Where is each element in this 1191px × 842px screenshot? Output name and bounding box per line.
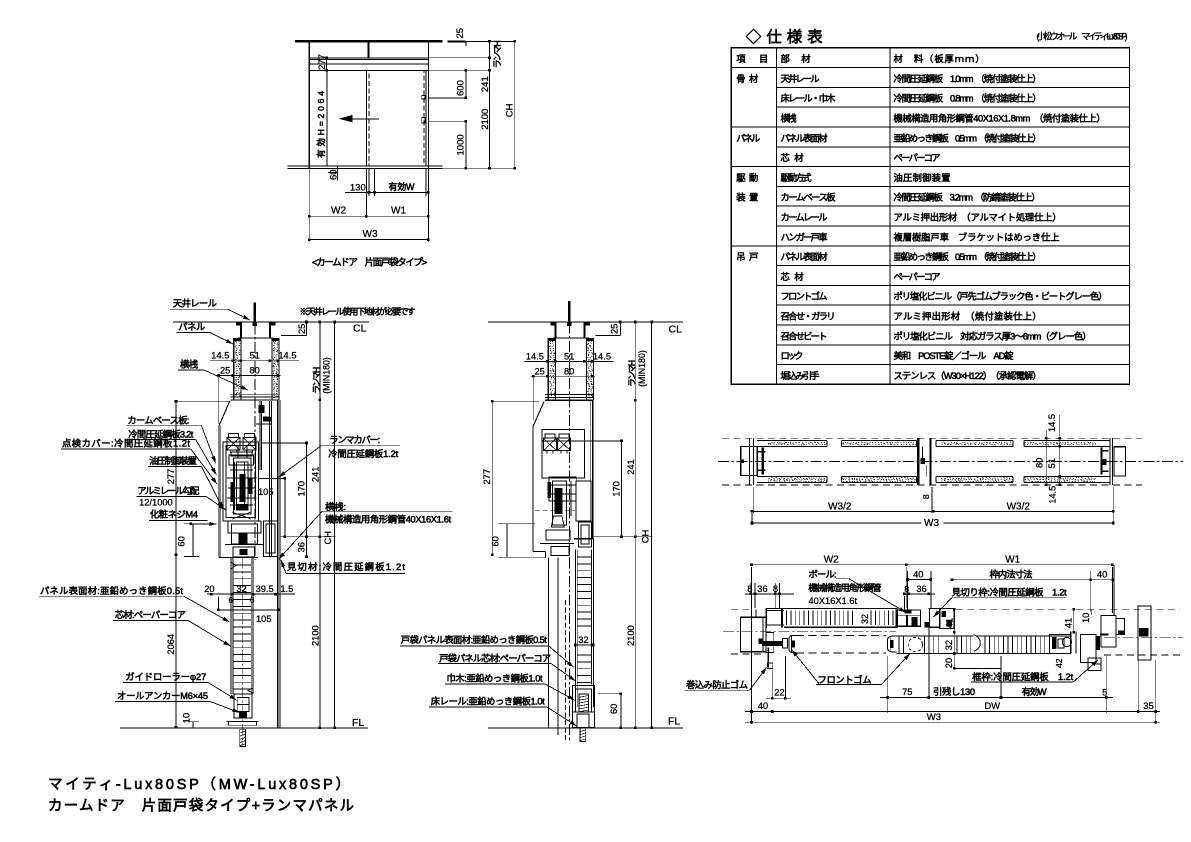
svg-text:点検カバー:冷間圧延鋼板1.2t: 点検カバー:冷間圧延鋼板1.2t	[62, 438, 190, 449]
left section dim row 25/80	[216, 375, 280, 377]
left section: door centerline	[241, 557, 243, 746]
elevation: ceiling line right stub	[448, 40, 466, 42]
left section: door panel skins (paper core ladder)	[230, 557, 232, 694]
mid section dim line CH	[651, 322, 653, 728]
svg-text:パネル表面材: パネル表面材	[781, 132, 828, 143]
hplan1: center meeting stile	[917, 438, 919, 485]
hplan2: dashed wall line lower	[731, 653, 766, 655]
left section: calm rail clamp marks	[259, 405, 265, 413]
svg-text:見切材:冷間圧延鋼板1.2t: 見切材:冷間圧延鋼板1.2t	[287, 561, 405, 572]
svg-text:CH: CH	[323, 531, 333, 544]
elevation right dims: CH line	[514, 41, 516, 168]
svg-text:ボール:: ボール:	[809, 570, 837, 580]
mid section: pocket panel ladder (paper core)	[574, 549, 576, 707]
svg-text:36: 36	[297, 542, 307, 552]
svg-text:堀込み引手: 堀込み引手	[781, 370, 820, 381]
svg-text:ペーパーコア: ペーパーコア	[894, 153, 941, 163]
elevation: left wall vertical	[308, 41, 310, 168]
hplan1: left channel bracket	[762, 448, 764, 475]
hplan1: left wall jamb verticals	[749, 438, 751, 485]
left section dim 25 at CL right	[306, 322, 308, 336]
svg-text:1000: 1000	[456, 134, 467, 155]
svg-text:部 材: 部 材	[781, 53, 811, 64]
svg-text:油圧制御装置: 油圧制御装置	[149, 455, 197, 466]
hplan1: panel skins right half	[936, 440, 1013, 442]
svg-text:600: 600	[456, 80, 467, 96]
svg-text:W3: W3	[363, 229, 378, 240]
left section: ext from 25 dim to cover	[218, 376, 220, 425]
hplan1 dims right: 14.5/51/14.5/80	[1045, 430, 1047, 485]
hplan1: right channel bracket	[1100, 448, 1102, 475]
svg-text:12/1000: 12/1000	[139, 498, 173, 508]
left section dim row 14.5/51/14.5	[210, 360, 299, 362]
left section ext: jamb top to dims	[280, 536, 336, 538]
svg-text:105: 105	[258, 487, 274, 497]
svg-text:8: 8	[773, 584, 778, 594]
svg-text:80: 80	[564, 366, 574, 376]
svg-text:機械構造用角形鋼管40X16X1.6t: 機械構造用角形鋼管40X16X1.6t	[325, 514, 451, 525]
elevation: pocket front edge line	[365, 70, 367, 166]
left section: CL line	[173, 321, 369, 323]
svg-text:ペーパーコア: ペーパーコア	[894, 272, 941, 282]
mid section: cover slope + left edge	[533, 402, 544, 552]
hplan2: pocket band top skin	[766, 607, 897, 609]
left section: inspection cover slope+front	[219, 401, 230, 557]
mid section: mikiri frame at jamb	[574, 538, 593, 540]
left section: ceiling rail channel	[240, 322, 242, 338]
left section dim 170	[306, 443, 308, 537]
left section: guide roller assembly	[234, 694, 252, 718]
svg-text:10: 10	[1081, 613, 1091, 623]
mid section dim row 25/80	[531, 375, 595, 377]
svg-text:CL: CL	[353, 323, 367, 335]
svg-text:2100: 2100	[480, 109, 491, 130]
mid section dim 60 (left)	[506, 524, 508, 557]
elevation: door slide arrow (handle mark)	[352, 118, 379, 120]
hplan2: recessed pull (arc)	[974, 635, 981, 651]
svg-text:241: 241	[310, 467, 320, 483]
mid section: mechanism small parts	[549, 477, 576, 501]
spec table outer border	[731, 48, 1129, 385]
hplan2 dims row 75 / 130 / 有効W / 5	[887, 656, 889, 713]
hplan2 dims: 40 / 8 36 (pole)	[907, 571, 909, 610]
svg-text:75: 75	[902, 687, 912, 697]
mid section dim 170	[621, 441, 623, 537]
svg-text:床レール:亜鉛めっき鋼板1.0t: 床レール:亜鉛めっき鋼板1.0t	[431, 696, 545, 707]
svg-text:カームレール: カームレール	[781, 213, 828, 223]
svg-text:8: 8	[747, 584, 752, 594]
hplan2 dims row 40 DW 35	[751, 615, 753, 724]
hplan2: anti-roll rubber parts	[762, 641, 783, 646]
mid section: hanger rollers	[545, 434, 555, 438]
svg-text:W2: W2	[824, 555, 839, 566]
svg-text:パネル表面材:亜鉛めっき鋼板0.5t: パネル表面材:亜鉛めっき鋼板0.5t	[40, 585, 183, 596]
hplan2: pull plate line	[954, 667, 1001, 669]
svg-text:戸袋パネル芯材:ペーパーコア: 戸袋パネル芯材:ペーパーコア	[439, 653, 551, 664]
svg-text:W1: W1	[1005, 555, 1020, 566]
svg-text:20: 20	[204, 584, 214, 594]
elevation dim 277 (transom rail height)	[326, 58, 328, 71]
svg-text:ランマH: ランマH	[627, 360, 637, 387]
svg-text:FL: FL	[668, 716, 680, 728]
svg-text:横桟:: 横桟:	[325, 501, 346, 512]
left section: centerline	[254, 305, 256, 560]
mid section ext: jamb top to dims	[593, 536, 652, 538]
svg-text:油圧制御装置: 油圧制御装置	[894, 172, 951, 183]
svg-text:14.5: 14.5	[526, 351, 544, 361]
elevation: floor extension to dims	[428, 167, 514, 169]
svg-text:亜鉛めっき鋼板 0.5mm （焼付塗装仕上）: 亜鉛めっき鋼板 0.5mm （焼付塗装仕上）	[894, 251, 1042, 262]
svg-text:冷間圧延鋼板 1.0mm （焼付塗装仕上）: 冷間圧延鋼板 1.0mm （焼付塗装仕上）	[894, 73, 1042, 84]
hplan2: pole (square tube) at pocket mouth	[896, 610, 920, 626]
svg-text:41: 41	[1064, 618, 1074, 628]
mid section dim 277	[491, 401, 493, 555]
svg-text:カームベース板: カームベース板	[781, 192, 836, 203]
svg-text:25: 25	[535, 366, 545, 376]
svg-text:32: 32	[860, 614, 870, 624]
mid section: right edge verticals	[592, 400, 594, 539]
svg-text:召合せビート: 召合せビート	[781, 330, 828, 341]
hplan2: dashed wall line upper	[731, 608, 752, 610]
svg-text:14.5: 14.5	[211, 351, 229, 361]
hplan2: pocket band ladder hatch	[786, 611, 788, 626]
elevation: transom divider mullion	[368, 41, 370, 58]
svg-text:105: 105	[256, 614, 272, 624]
elevation dim 有効W	[375, 191, 429, 193]
svg-text:ランマH: ランマH	[493, 40, 503, 68]
mid section: door slab verticals	[547, 558, 549, 728]
mid section: transom bottom rail	[545, 399, 593, 401]
svg-text:25: 25	[455, 28, 466, 39]
svg-text:32: 32	[944, 640, 954, 650]
svg-text:フロントゴム: フロントゴム	[781, 291, 828, 302]
svg-text:60: 60	[491, 536, 501, 546]
svg-text:8: 8	[921, 494, 931, 499]
svg-text:パネル: パネル	[178, 322, 205, 332]
svg-text:25: 25	[220, 366, 230, 376]
svg-text:ランマカバー:: ランマカバー:	[329, 435, 380, 445]
elevation dim 130 (door projection)	[345, 191, 375, 193]
hplan2 dims: 8 36 8 (left)	[750, 583, 752, 594]
left section: right cover verticals to FL	[277, 400, 279, 728]
svg-text:51: 51	[250, 351, 260, 361]
hplan2: pocket mouth bracket	[765, 608, 767, 628]
spec table row lines	[731, 67, 1129, 69]
svg-text:277: 277	[166, 469, 176, 485]
left section dim line ranmaH/241/2100	[319, 322, 321, 728]
svg-text:アルミレール勾配: アルミレール勾配	[137, 485, 199, 496]
svg-text:引残し130: 引残し130	[933, 686, 975, 697]
hplan2 dim W3	[745, 721, 1160, 723]
left section: transom panel skins	[233, 338, 235, 400]
mid section: door top connector	[551, 547, 569, 556]
svg-text:冷間圧延鋼板 0.8mm （焼付塗装仕上）: 冷間圧延鋼板 0.8mm （焼付塗装仕上）	[894, 93, 1042, 104]
hplan1 dim W3	[752, 522, 1113, 524]
svg-text:天井レール: 天井レール	[781, 73, 820, 84]
elevation: ext lines to right dims	[428, 57, 489, 59]
hplan2: pocket mouth inner bracket	[766, 633, 774, 653]
svg-text:芯 材: 芯 材	[781, 271, 804, 282]
svg-text:25: 25	[297, 324, 307, 334]
hplan2: recessed pull hidden circle (dashed)	[908, 637, 922, 651]
left section dim line CH	[334, 322, 336, 728]
svg-text:ロック: ロック	[781, 351, 804, 361]
mid section: anchor bolt below floor	[580, 728, 586, 741]
hplan2: door slab ladder hatch	[898, 636, 900, 653]
svg-text:有効W: 有効W	[1022, 686, 1047, 697]
svg-text:ポリ塩化ビニル（戸先ゴムブラック色・ビートグレー色）: ポリ塩化ビニル（戸先ゴムブラック色・ビートグレー色）	[894, 291, 1108, 302]
svg-text:130: 130	[350, 182, 366, 193]
svg-text:39.5: 39.5	[256, 584, 274, 594]
left section: jamb/mikiri detail at door top	[264, 521, 278, 557]
elevation: ceiling slab line (thick)	[295, 40, 443, 42]
hplan2: closed door slab skins	[896, 635, 1070, 637]
left section: transom bottom rail	[231, 399, 279, 401]
left section: hydraulic unit internals	[234, 458, 252, 514]
svg-text:14.5: 14.5	[278, 351, 296, 361]
svg-text:277: 277	[482, 469, 492, 485]
svg-text:W3: W3	[927, 712, 941, 723]
left section: hanger rollers	[228, 433, 238, 437]
elevation right dims: 600 and 1000 line	[428, 97, 466, 99]
left section: inner verticals	[259, 401, 261, 470]
left section: extension line transom bottom to far-left dim	[176, 400, 231, 402]
left section: lower hanger bracket	[228, 521, 261, 533]
svg-text:14.5: 14.5	[1047, 414, 1057, 432]
hplan2 dim 枠内法寸法 and 40 (right)	[952, 579, 1091, 581]
svg-text:80: 80	[1035, 458, 1045, 468]
hplan1 dim W3/2 left	[753, 487, 755, 513]
svg-text:ステンレス（W30×H122） （承認電解）: ステンレス（W30×H122） （承認電解）	[894, 370, 1042, 381]
hplan2: left wall cap	[741, 617, 767, 652]
left section: calm base plate	[223, 442, 258, 521]
svg-text:51: 51	[1047, 458, 1057, 468]
left section dim 105 (vertical at mechanism)	[284, 478, 286, 536]
left section dim line 277/2064 (far left)	[175, 401, 177, 727]
mid section dim line ranmaH/241/2100	[634, 322, 636, 728]
hplan2: right wall end block	[1138, 606, 1151, 660]
svg-text:床レール・巾木: 床レール・巾木	[781, 93, 836, 104]
svg-text:241: 241	[480, 76, 491, 92]
svg-text:枠内法寸法: 枠内法寸法	[990, 569, 1033, 580]
hplan2: wall jamb post	[1101, 616, 1116, 648]
svg-text:アルミ押出形材 （アルマイト処理仕上）: アルミ押出形材 （アルマイト処理仕上）	[894, 212, 1062, 223]
hplan2: centerline right	[1104, 637, 1183, 639]
hplan1: right wall jamb verticals	[1109, 438, 1111, 485]
svg-text:40: 40	[1097, 570, 1107, 580]
svg-text:(MIN180): (MIN180)	[322, 357, 332, 394]
hplan2: band right of pole + mikiri bracket	[929, 608, 931, 627]
left section dim row 20/32/39.5/1.5	[207, 593, 295, 595]
svg-text:横桟: 横桟	[781, 113, 797, 124]
hplan2: hidden door dashed outline in pocket	[796, 634, 886, 636]
svg-text:1.5: 1.5	[280, 584, 293, 594]
svg-text:パネル表面材: パネル表面材	[781, 251, 828, 262]
spec table column lines	[776, 48, 778, 385]
svg-text:170: 170	[297, 481, 307, 497]
svg-text:277: 277	[317, 54, 328, 70]
elevation dim W2 / W1	[309, 215, 428, 217]
svg-text:20: 20	[944, 658, 954, 668]
hplan2: lock case	[1050, 635, 1071, 654]
svg-text:241: 241	[626, 459, 636, 475]
svg-text:芯 材: 芯 材	[781, 152, 804, 163]
left section: panel break zigzag	[231, 562, 236, 569]
svg-text:召合せ・ガラリ: 召合せ・ガラリ	[781, 311, 836, 322]
mid section: floor rail assembly	[573, 686, 595, 728]
svg-text:32: 32	[578, 635, 588, 645]
svg-text:6: 6	[250, 596, 255, 605]
svg-text:芯材:ペーパーコア: 芯材:ペーパーコア	[115, 609, 186, 620]
svg-text:材 料（板厚ｍｍ）: 材 料（板厚ｍｍ）	[894, 53, 985, 64]
svg-text:フロントゴム: フロントゴム	[818, 674, 872, 685]
svg-text:41: 41	[944, 618, 954, 628]
mid section: ceiling rail box	[555, 322, 557, 338]
elevation: right jamb verticals	[427, 41, 429, 168]
svg-text:オールアンカーM6×45: オールアンカーM6×45	[117, 691, 208, 701]
hplan1 dim W3/2 right	[1112, 487, 1114, 525]
left section dim 36	[306, 537, 308, 557]
left section: anchor stub above ceiling	[254, 302, 257, 322]
hplan2: door end + jamb catch	[1070, 631, 1072, 653]
elevation: transom bottom rail lines	[309, 57, 428, 59]
hplan2: centerline left	[723, 631, 896, 633]
elevation: door head line	[309, 69, 428, 71]
svg-text:36: 36	[916, 584, 926, 594]
left section: transom panel stipple cores	[235, 340, 236, 343]
elevation right dims: ranma-H 241 2100 line	[489, 41, 491, 168]
elevation dim W3	[309, 239, 428, 241]
svg-text:W3/2: W3/2	[1007, 501, 1031, 512]
mid section dim 60 (bottom right)	[620, 694, 622, 728]
left section dim 60 (left)	[192, 524, 194, 557]
hplan1: dashed wall lines	[722, 437, 1142, 439]
mid section: door centerlines dashed	[565, 600, 567, 740]
mid section: FL line	[488, 727, 683, 729]
svg-text:項 目: 項 目	[736, 54, 768, 64]
svg-text:戸袋パネル表面材:亜鉛めっき鋼板0.5t: 戸袋パネル表面材:亜鉛めっき鋼板0.5t	[401, 634, 547, 645]
mid section: transom panel skins	[547, 338, 549, 400]
left section: anchor bolt below floor (hatched)	[240, 729, 246, 746]
hplan2 dim 22	[771, 670, 773, 699]
svg-text:W3/2: W3/2	[828, 501, 852, 512]
svg-text:W2: W2	[331, 205, 346, 216]
mid section: transom stipple cores	[549, 341, 552, 344]
hplan1: centerline	[718, 461, 1183, 463]
svg-text:機械構造用角形鋼管40X16X1.8mm （焼付塗装仕上）: 機械構造用角形鋼管40X16X1.8mm （焼付塗装仕上）	[894, 113, 1106, 124]
svg-text:ポリ塩化ビニル 対応ガラス厚3～6mm（グレー色）: ポリ塩化ビニル 対応ガラス厚3～6mm（グレー色）	[894, 330, 1092, 341]
svg-text:有効W: 有効W	[389, 181, 416, 192]
svg-text:51: 51	[564, 351, 574, 361]
mid section: right rail bracket	[576, 481, 591, 521]
svg-text:ハンガー戸車: ハンガー戸車	[781, 231, 828, 242]
elevation: lock strike marks on door edge	[422, 96, 425, 100]
svg-text:32: 32	[236, 584, 246, 594]
svg-text:(MIN180): (MIN180)	[637, 350, 647, 387]
svg-text:40: 40	[758, 701, 768, 711]
left section: transom panel top clips	[234, 338, 240, 341]
mid section dim row 14.5/51/14.5	[525, 360, 614, 362]
svg-text:25: 25	[610, 324, 620, 334]
svg-text:天井レール: 天井レール	[173, 298, 217, 309]
svg-text:CH: CH	[505, 103, 516, 117]
mid section: floor rail anchor hatched	[579, 694, 589, 712]
hplan1: panel break end verticals	[826, 441, 828, 447]
svg-text:巻込み防止ゴム: 巻込み防止ゴム	[686, 679, 748, 690]
hplan1: stipple cores	[768, 442, 769, 445]
svg-text:駆動方式: 駆動方式	[781, 172, 812, 183]
hplan1: panel skins lower	[757, 482, 827, 484]
svg-text:2100: 2100	[626, 625, 636, 646]
svg-text:60: 60	[328, 169, 339, 180]
svg-text:14.5: 14.5	[1048, 486, 1058, 504]
left section dim 105 (horizontal lower)	[218, 609, 278, 611]
hplan2 dims top: W2 W1	[751, 567, 753, 615]
hplan1: panel skins upper	[757, 440, 827, 442]
elevation: pocket panel joint line	[326, 70, 328, 166]
hplan1: left end cap	[741, 447, 758, 476]
hplan2: door leading cap at pocket mouth	[887, 636, 896, 652]
svg-text:10: 10	[182, 713, 192, 723]
svg-text:40: 40	[913, 570, 923, 580]
svg-text:CL: CL	[669, 324, 683, 336]
svg-text:横桟: 横桟	[180, 359, 198, 370]
svg-text:35: 35	[1143, 701, 1153, 711]
left section dim 10 (bottom)	[192, 722, 194, 728]
svg-text:6: 6	[229, 596, 234, 605]
svg-text:化粧ネジM4: 化粧ネジM4	[150, 508, 198, 519]
svg-text:巾木:亜鉛めっき鋼板1.0t: 巾木:亜鉛めっき鋼板1.0t	[447, 672, 543, 683]
mid section dim 32 on panel	[575, 644, 593, 646]
mid section: transom top clips	[549, 338, 555, 341]
svg-text:W3: W3	[924, 518, 939, 529]
svg-text:DW: DW	[985, 701, 1001, 711]
elevation: door leaf dashed outline	[369, 71, 424, 166]
svg-text:40X16X1.6t: 40X16X1.6t	[809, 596, 858, 606]
svg-text:2064: 2064	[166, 634, 176, 655]
svg-text:<カームドア 片面戸袋タイプ>: <カームドア 片面戸袋タイプ>	[312, 256, 427, 268]
svg-text:60: 60	[609, 704, 619, 714]
svg-text:5: 5	[1102, 688, 1107, 698]
left section: door top connector	[233, 547, 255, 557]
svg-text:W1: W1	[391, 205, 406, 216]
hplan2 dims 41/32/20 column	[953, 609, 955, 668]
svg-text:22: 22	[774, 688, 784, 698]
svg-text:カームドア 片面戸袋タイプ+ランマパネル: カームドア 片面戸袋タイプ+ランマパネル	[48, 797, 354, 814]
svg-text:亜鉛めっき鋼板 0.5mm （焼付塗装仕上）: 亜鉛めっき鋼板 0.5mm （焼付塗装仕上）	[894, 132, 1042, 143]
svg-text:パネル: パネル	[736, 133, 760, 143]
elevation dim 60 bottom left	[337, 166, 339, 181]
mid section: CL line	[488, 321, 683, 323]
svg-text:36: 36	[757, 584, 767, 594]
svg-text:冷間圧延鋼板 3.2mm （防錆塗装仕上）: 冷間圧延鋼板 3.2mm （防錆塗装仕上）	[894, 192, 1041, 203]
svg-text:ガイドローラーφ27: ガイドローラーφ27	[125, 672, 206, 682]
elevation: bottom extension lines	[308, 168, 310, 241]
svg-text:アルミ押出形材 （焼付塗装仕上）: アルミ押出形材 （焼付塗装仕上）	[894, 311, 1042, 322]
svg-text:複層樹脂戸車 ブラケットはめっき仕上: 複層樹脂戸車 ブラケットはめっき仕上	[894, 231, 1060, 242]
elevation: floor double line	[288, 165, 443, 167]
svg-text:※天井レール使用下地材が必要です: ※天井レール使用下地材が必要です	[300, 306, 416, 317]
left section: floor plate	[226, 721, 258, 723]
svg-text:見切り枠:冷間圧延鋼板 1.2t: 見切り枠:冷間圧延鋼板 1.2t	[952, 587, 1067, 598]
svg-text:冷間圧延鋼板1.2t: 冷間圧延鋼板1.2t	[328, 448, 398, 459]
svg-text:80: 80	[250, 366, 260, 376]
mid section: anchor stub	[568, 301, 571, 322]
svg-text:170: 170	[612, 481, 622, 497]
svg-text:8: 8	[904, 584, 909, 594]
hplan1: right end cap	[1114, 447, 1126, 476]
left section: FL line	[120, 727, 368, 729]
